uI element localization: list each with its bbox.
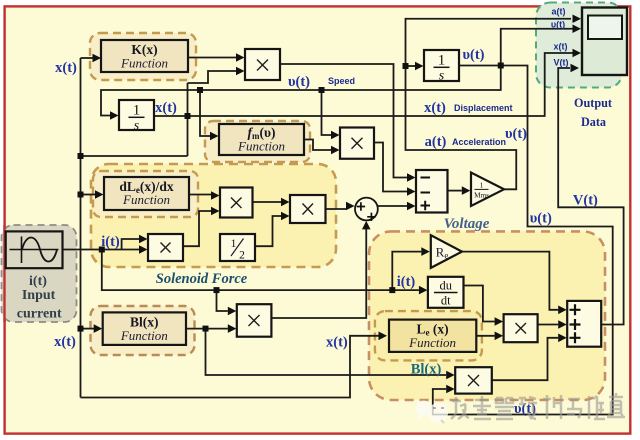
block i squared product [148, 234, 183, 261]
watermark logo bubbles [416, 401, 448, 424]
wire: force adder circle to sum plus [378, 205, 407, 207]
svg-text:1: 1 [438, 53, 446, 69]
node x(t) bus y156 [78, 153, 84, 159]
wire: Bl(x) down to voltage product [206, 329, 447, 375]
arrow into voltage product in2 [495, 332, 504, 341]
block scope [582, 8, 627, 76]
node v(t) to fm [197, 87, 203, 93]
node i(t) at source [99, 247, 105, 253]
arrow into i2 product in2 [139, 245, 148, 254]
node a(t) at integrator input [403, 63, 409, 69]
block force adder circle [355, 198, 378, 221]
svg-text:υ(t): υ(t) [288, 74, 310, 90]
wire: sine source i(t) output [63, 249, 140, 251]
wire: x(t) riser 187.5 [187, 83, 189, 156]
svg-text:x(t): x(t) [326, 335, 348, 351]
block Le(x) Function [389, 320, 476, 352]
arrow into Bl product in1 [228, 307, 237, 316]
block fm(v) Function [219, 124, 304, 155]
svg-text:i(t): i(t) [29, 274, 47, 289]
wire: i(t) jog upper into i2 product [122, 239, 139, 250]
arrow into K(x) [93, 54, 102, 63]
arrow into du/dt [419, 286, 428, 295]
svg-text:Bl(x): Bl(x) [411, 362, 442, 378]
region: dLe/dx function group [93, 171, 198, 217]
wire: i(t) up into Re gain [392, 252, 421, 291]
region: output data group [536, 3, 622, 88]
red border overlay across input region [3, 225, 5, 322]
svg-text:υ(t): υ(t) [530, 211, 552, 227]
region: Bl(x) function group [91, 306, 195, 355]
svg-text:a(t): a(t) [552, 7, 566, 17]
wire: du/dt output to product [464, 286, 495, 322]
block dLe(x)/dx Function [104, 177, 189, 210]
node x(t) at integrator output [185, 113, 191, 119]
node x(t) bus at dLe [78, 192, 84, 198]
arrow into chain product2 in2 [281, 212, 290, 221]
arrow up into circle bottom [362, 221, 371, 230]
svg-text:Voltage: Voltage [444, 216, 490, 232]
wire: half constant output [255, 216, 281, 246]
arrow into damping product in1 [331, 131, 340, 140]
node x(t) bus at Bl [78, 326, 84, 332]
wire: x(t) zigzag into top product [188, 71, 237, 83]
wire: v(t) into damping product [322, 90, 332, 135]
wire: i(t) bus down and right [102, 250, 419, 291]
wire: stiffness product to sum minus1 [280, 64, 407, 178]
block left integrator 1/s [119, 100, 154, 134]
svg-text:x(t): x(t) [424, 100, 446, 116]
arrow into Re [421, 247, 430, 256]
wire: chain product1 output [253, 201, 282, 203]
block force sum [416, 170, 448, 213]
block derivative du/dt [428, 277, 464, 308]
arrow into right integrator [415, 62, 424, 71]
region: Solenoid Force group [91, 164, 336, 267]
arrow into force sum minus1 [407, 173, 416, 182]
wire: Re output to V sum [462, 252, 558, 310]
svg-text:Function: Function [120, 328, 168, 343]
svg-text:Solenoid Force: Solenoid Force [156, 271, 248, 287]
svg-text:υ(t): υ(t) [505, 126, 527, 142]
arrow into left integrator [110, 111, 119, 120]
svg-text:i(t): i(t) [397, 274, 416, 290]
block Bl(x) Function [103, 312, 186, 345]
wire: fm output into damping product [304, 140, 331, 151]
block right integrator 1/s [424, 50, 459, 84]
svg-text:Displacement: Displacement [454, 103, 513, 113]
svg-text:1: 1 [133, 103, 141, 119]
wire: v(t) feedback W1 to integrator [101, 66, 501, 116]
svg-text:Function: Function [237, 139, 285, 154]
block constant 1/2 [220, 234, 255, 262]
svg-text:1: 1 [480, 181, 484, 190]
arrow into damping product in2 [331, 146, 340, 155]
svg-text:current: current [17, 307, 62, 322]
wire: V(t) from sum up to scope [558, 68, 623, 325]
block voltage product [504, 314, 538, 342]
wire: force sum to 1/Mms [448, 190, 462, 192]
arrow into Bl(x) [94, 324, 103, 333]
wire: v(t) distribution right and bottom loop [433, 66, 613, 415]
wire: x(t) into K(x) [81, 57, 94, 59]
svg-text:x(t): x(t) [54, 334, 76, 350]
arrow into scope a [573, 14, 582, 23]
wire: v(t) up to scope [501, 29, 573, 66]
wire: x(t) into dLe/dx [81, 194, 96, 196]
wire: x(t) long run to scope [154, 53, 573, 116]
arrow into scope v [573, 24, 582, 33]
arrow into 1/Mms [462, 186, 471, 195]
ARROWS [93, 14, 582, 393]
svg-text:x(t): x(t) [554, 42, 568, 52]
wire: voltage product to V sum [538, 324, 559, 326]
svg-text:V(t): V(t) [573, 193, 598, 209]
arrow into V sum in1 [558, 306, 567, 315]
arrow into voltage product in1 [495, 317, 504, 326]
node v(t) to damping product [319, 87, 325, 93]
svg-text:Function: Function [120, 56, 168, 71]
wire: K(x) output to product [188, 57, 236, 59]
wire: dLe/dx output [189, 194, 211, 196]
region: input current group [2, 225, 77, 322]
region: Voltage group [369, 231, 605, 400]
wire: i(t) into Bl product [217, 290, 228, 311]
svg-text:x(t): x(t) [55, 60, 77, 76]
wire: x(t) bus vertical left [80, 58, 82, 398]
block damping product [340, 128, 374, 159]
arrow into scope x [573, 49, 582, 58]
wire: x(t) bottom run to Le(x) [81, 336, 379, 398]
arrow into Blv product in2 [446, 385, 455, 394]
svg-text:Acceleration: Acceleration [452, 137, 506, 147]
block gain Re [431, 235, 462, 268]
arrow into chain product1 in2 [211, 207, 220, 216]
wire: x(t) into Bl(x) [81, 328, 95, 330]
wire: a(t) into integrator [406, 65, 416, 67]
block Bl v product [455, 367, 492, 393]
arrow into dLe/dx [95, 190, 104, 199]
arrow into top product in2 [236, 67, 245, 76]
region: fm function group [205, 121, 310, 162]
block top product [245, 49, 280, 80]
arrow into V sum in2 [558, 320, 567, 329]
block V sum [567, 301, 601, 347]
arrow into chain product1 in1 [211, 191, 220, 200]
arrow into force sum plus [407, 202, 416, 211]
svg-text:2: 2 [239, 250, 245, 262]
svg-text:Function: Function [408, 335, 456, 350]
svg-text:Speed: Speed [328, 76, 355, 86]
svg-text:Output: Output [574, 96, 612, 110]
arrow into Bl product in2 [228, 324, 237, 333]
node v(t) at integrator output [498, 63, 504, 69]
region: Le(x) function group [375, 311, 482, 360]
arrow into V sum in3 [558, 334, 567, 343]
arrow into i2 product in1 [139, 235, 148, 244]
watermark characters [451, 393, 625, 419]
wire: damping product to sum minus2 [374, 143, 407, 192]
svg-text:υ(t): υ(t) [551, 20, 565, 30]
arrow into Blv product in1 [446, 371, 455, 380]
block Bl force product [237, 304, 272, 337]
region: K(x) function group [90, 33, 196, 80]
block chain product2 [290, 195, 326, 223]
node i(t) at Re [389, 287, 395, 293]
wire: x(t) horizontal into left bus at y156 [81, 155, 188, 157]
svg-text:du: du [439, 279, 452, 293]
wire: Bl(x) output [186, 328, 228, 330]
svg-text:υ(t): υ(t) [462, 47, 484, 63]
svg-text:s: s [134, 119, 140, 134]
arrow into force sum minus2 [407, 187, 416, 196]
wire: Le output to product [476, 335, 494, 337]
block sine source [6, 231, 63, 268]
wire: Bl force product up into circle [271, 229, 366, 318]
block K(x) Function [101, 40, 188, 72]
svg-text:i(t): i(t) [101, 234, 120, 250]
wire: i squared product output [183, 211, 211, 246]
block gain 1/Mms [471, 173, 504, 207]
arrow into top product in1 [236, 53, 245, 62]
svg-text:1: 1 [231, 238, 237, 250]
svg-text:a(t): a(t) [425, 134, 447, 150]
svg-text:dt: dt [441, 294, 451, 308]
wire: v(t) into fm [200, 90, 210, 136]
block chain product1 [220, 188, 253, 218]
arrow into scope V [571, 64, 580, 73]
svg-text:Function: Function [122, 192, 170, 207]
WATERMARK [416, 393, 625, 423]
node Bl(x) output [203, 326, 209, 332]
svg-text:Data: Data [581, 115, 606, 129]
svg-text:Input: Input [22, 288, 56, 303]
arrow into circle left [346, 202, 355, 211]
wire: Bl v product to V sum [492, 338, 558, 380]
svg-text:x(t): x(t) [155, 100, 177, 116]
svg-text:Mms: Mms [474, 191, 489, 199]
arrow into fm [210, 132, 219, 141]
node i(t) at Bl product [214, 287, 220, 293]
wire: reluctance force to circle [326, 208, 347, 210]
wire: a(t) from 1/Mms up to integrator and scope [406, 19, 572, 190]
svg-text:V(t): V(t) [554, 58, 569, 68]
arrow into chain product2 in1 [281, 198, 290, 207]
arrow into Le(x) [379, 332, 388, 341]
svg-text:s: s [439, 69, 445, 84]
